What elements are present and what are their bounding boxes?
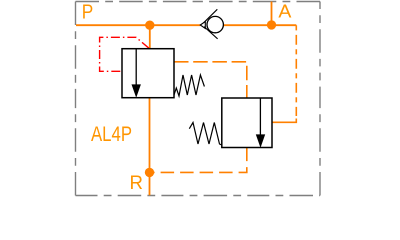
enclosure dashed boundary right upper half: [319, 2, 321, 99]
wire node A up to boundary: [271, 2, 273, 26]
wire P main line left segment: [76, 24, 201, 26]
enclosure dashed boundary bottom: [76, 195, 321, 197]
wire node P down to valve V1 inlet: [149, 25, 151, 49]
svg-text:P: P: [82, 2, 94, 24]
check valve CV1 ball: [207, 16, 223, 32]
valve V1 body: [122, 49, 174, 98]
svg-text:A: A: [278, 1, 292, 22]
svg-text:AL4P: AL4P: [91, 123, 132, 146]
check valve CV1 lower seat line: [204, 27, 218, 39]
dashed pilot line A branch vertical: [295, 25, 297, 116]
wire from check valve to node A: [224, 24, 297, 26]
junction node A: [267, 20, 276, 29]
svg-text:R: R: [130, 172, 144, 194]
dashed pilot line A branch elbow to valve V2: [272, 119, 296, 123]
valve V2 flow arrow: [256, 134, 265, 147]
red pilot dash-dot line of valve V1: [100, 37, 149, 71]
valve V2 body: [222, 98, 272, 148]
valve V1 flow path line: [135, 49, 137, 86]
wire valve V1 outlet down to port R: [149, 98, 151, 196]
enclosure dashed boundary top right half: [197, 1, 320, 3]
valve V2 spring: [189, 123, 222, 146]
check valve CV1 seat triangle: [200, 22, 205, 29]
enclosure dashed boundary right lower half: [319, 98, 321, 196]
enclosure dashed boundary top left half: [76, 1, 198, 3]
enclosure dashed boundary left lower half: [75, 98, 77, 196]
enclosure dashed boundary left upper half: [75, 2, 77, 99]
dashed line valve V2 bottom to node R: [154, 148, 247, 173]
valve V2 flow path line: [259, 98, 261, 136]
check valve CV1 upper seat line: [204, 9, 218, 22]
valve V1 spring: [174, 75, 204, 96]
dashed line valve V1 side port to valve V2 top: [174, 62, 247, 98]
junction node R: [145, 168, 154, 177]
valve V1 flow arrow: [132, 84, 141, 97]
junction node on P line: [145, 21, 154, 30]
